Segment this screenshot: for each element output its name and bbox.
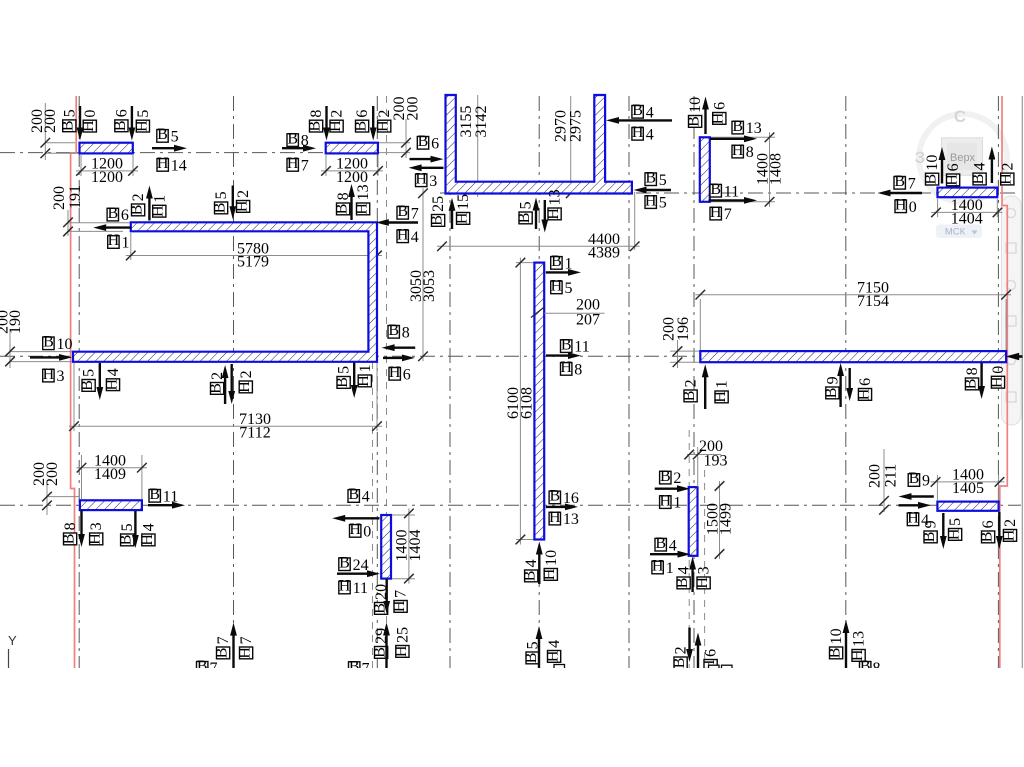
svg-text:11: 11 [353,580,368,597]
marker В6 Н3 arrows at corner wall [409,133,444,190]
svg-text:8: 8 [308,110,325,118]
marker partial box bottom center [554,665,565,676]
svg-text:В: В [307,121,324,132]
viewcube compass ring [919,114,1007,202]
svg-text:Н: Н [988,376,1005,388]
svg-text:6: 6 [857,378,874,386]
svg-text:В: В [157,126,168,143]
svg-text:0: 0 [82,110,99,118]
marker В4 Н2 over wall W6 right [970,147,1016,185]
svg-text:1: 1 [151,195,168,203]
svg-text:6: 6 [703,649,720,657]
svg-text:Н: Н [549,509,561,526]
svg-text:1: 1 [673,495,681,512]
svg-text:Н: Н [87,533,104,545]
svg-text:В: В [287,130,298,147]
marker В4 Н10 under center wall [522,542,560,585]
marker В8 Н13 up arrow under wall W2 [334,184,373,220]
svg-text:С: С [954,107,966,126]
svg-text:1405: 1405 [952,480,984,497]
svg-text:24: 24 [353,557,369,574]
svg-text:Н: Н [80,120,97,132]
svg-text:7154: 7154 [857,293,889,310]
marker В2 Н1 right arrow at right wall top [655,468,690,512]
svg-text:В: В [348,486,359,503]
svg-text:3053: 3053 [421,270,438,302]
svg-text:4: 4 [669,537,677,554]
marker В8 Н0 under long wall right [962,363,1007,399]
marker В5 Н13 arrows at tee wall bottom [516,189,564,232]
svg-text:МСК: МСК [945,227,966,238]
svg-text:1200: 1200 [336,169,368,186]
svg-text:Н: Н [393,645,410,657]
svg-text:3: 3 [88,522,105,530]
svg-text:7: 7 [908,175,916,192]
svg-text:5: 5 [565,280,573,297]
svg-text:5: 5 [336,366,353,374]
marker В4 Н3 up arrow under right wall [674,557,713,593]
svg-text:Н: Н [710,112,727,124]
svg-text:6108: 6108 [519,387,536,419]
dimension 5780 5179 [126,233,382,271]
svg-text:В: В [732,118,743,135]
svg-text:6: 6 [711,102,728,110]
right navigation bar panel [1002,196,1022,425]
marker В10 Н6 over wall W5 [686,97,729,135]
wall W14 bottom right 1400 [937,502,998,511]
svg-text:7: 7 [215,636,232,644]
svg-text:4: 4 [546,640,563,648]
svg-text:2: 2 [673,470,681,487]
svg-text:5179: 5179 [237,254,269,271]
dimension 1200 1200 under wall W1 [76,155,138,186]
dimension 200 200 wall W1 left [29,103,78,160]
svg-text:13: 13 [851,631,868,647]
svg-text:9: 9 [923,520,940,528]
svg-text:Н: Н [237,647,254,659]
svg-text:1499: 1499 [718,503,735,535]
dimension 7130 7112 [69,363,382,441]
marker В11 right arrow at bottom left wall [148,486,185,509]
marker В6 Н2 over wall W2 right [353,106,394,141]
svg-text:1: 1 [666,560,674,577]
svg-text:В: В [962,379,979,390]
svg-text:5: 5 [947,518,964,526]
marker В7 Н4 left arrow at room corner [376,203,419,246]
svg-text:Н: Н [150,205,167,217]
svg-text:Н: Н [545,208,562,220]
svg-text:2975: 2975 [568,110,585,142]
svg-text:Н: Н [327,120,344,132]
dimension 7150 7154 [695,280,1011,352]
marker В2 Н1 under long wall left [681,364,731,409]
marker В9 Н6 under long wall mid [823,363,874,407]
svg-text:В: В [655,535,666,552]
svg-text:5: 5 [659,195,667,212]
axis vertical 3 [376,96,378,668]
svg-text:1200: 1200 [91,169,123,186]
svg-text:В: В [681,391,698,402]
svg-text:7: 7 [411,205,419,222]
svg-text:3: 3 [57,368,65,385]
svg-text:В: В [353,121,370,132]
svg-text:200: 200 [404,97,421,121]
dimension 3050 3053 vertical [408,188,438,361]
svg-text:В: В [334,204,351,215]
svg-text:Н: Н [108,232,120,249]
svg-text:Н: Н [415,171,427,188]
dimension 1200 1200 under wall W2 [321,155,383,186]
marker В9 Н5 under bottom right wall [921,513,964,549]
marker partial В8 bottom right edge [860,658,881,677]
svg-text:4: 4 [646,126,654,143]
svg-text:2: 2 [235,190,252,198]
svg-text:Н: Н [632,124,644,141]
marker В5 Н1 under room bottom wall right [334,363,374,398]
svg-text:1: 1 [357,364,374,372]
svg-text:4: 4 [411,229,419,246]
svg-text:Н: Н [103,378,120,390]
svg-text:В: В [112,120,129,131]
svg-text:10: 10 [924,155,941,171]
marker В25 Н15 up arrows at corner wall bottom [429,194,473,229]
svg-text:4: 4 [105,368,122,376]
svg-text:В: В [388,322,399,339]
marker В10 Н6 over wall W6 left [923,147,963,186]
svg-text:5: 5 [61,109,78,117]
wall W5 small vertical top right [700,137,710,202]
axis vertical 7 [693,96,695,668]
svg-text:В: В [129,205,146,216]
svg-text:2: 2 [329,110,346,118]
marker В2 Н1 over room top wall left [129,186,169,221]
axis horizontal A [0,152,378,154]
svg-text:В: В [921,532,938,543]
svg-text:Н: Н [732,142,744,159]
svg-text:0: 0 [909,199,917,216]
marker В16 Н13 right arrow at center wall bottom [546,488,579,529]
svg-text:8: 8 [964,367,981,375]
svg-text:Н: Н [349,521,361,538]
marker В10 Н13 up arrow bottom right [827,620,868,668]
marker В5 Н2 over room top wall mid [212,186,253,220]
svg-text:2: 2 [1002,519,1019,527]
svg-text:В: В [212,203,229,214]
svg-text:6: 6 [113,109,130,117]
svg-text:3142: 3142 [473,106,490,138]
svg-text:Н: Н [694,577,711,589]
marker В6 Н1 left arrow at room wall [93,205,131,252]
svg-text:10: 10 [57,336,73,353]
svg-text:8: 8 [402,324,410,341]
svg-text:Н: Н [397,227,409,244]
dimension 6100 6108 vertical [505,258,535,545]
svg-text:1: 1 [714,380,731,388]
svg-text:В: В [686,116,703,127]
svg-text:В: В [710,181,721,198]
marker В8 Н3 under bottom left wall [61,511,106,548]
svg-text:Верх: Верх [950,152,975,164]
svg-text:7: 7 [238,636,255,644]
svg-text:7: 7 [724,206,732,223]
svg-text:В: В [429,215,446,226]
svg-text:Н: Н [236,381,253,393]
svg-text:6: 6 [354,110,371,118]
svg-text:В: В [214,648,231,659]
wall W15 long right [700,351,1006,362]
marker В7 Н0 left arrow [878,173,923,216]
svg-text:5: 5 [81,369,98,377]
svg-text:В: В [60,120,77,131]
svg-text:Н: Н [998,173,1015,185]
marker В29 Н25 up arrow bottom [372,623,412,669]
marker В4 Н1 right arrow at right wall bottom [650,535,691,577]
svg-text:3: 3 [696,566,713,574]
svg-text:В: В [660,468,671,485]
svg-text:Н: Н [551,278,563,295]
marker В20 Н7 down arrow under mid wall [372,579,410,614]
svg-text:6: 6 [431,135,439,152]
svg-text:В: В [979,532,996,543]
axis horizontal C [0,355,1016,357]
svg-text:Н: Н [944,174,961,186]
svg-text:В: В [523,653,540,664]
svg-text:2: 2 [999,163,1016,171]
svg-text:200: 200 [42,109,59,133]
svg-text:7: 7 [393,590,410,598]
svg-text:В: В [674,578,691,589]
svg-text:13: 13 [547,189,564,205]
svg-text:1408: 1408 [768,153,785,185]
svg-text:196: 196 [675,317,692,341]
svg-text:9: 9 [824,376,841,384]
svg-text:В: В [334,377,351,388]
wall W3 corner L-shape [446,95,632,194]
viewcube square Верх [942,138,983,176]
svg-text:В: В [671,658,688,669]
marker В11 Н7 right arrow [709,181,758,223]
marker В5 Н0 over wall W1 left [60,106,99,141]
svg-text:6: 6 [945,163,962,171]
marker В8 Н2 over wall W2 left [307,106,346,141]
svg-text:В: В [923,174,940,185]
svg-text:В: В [339,554,350,571]
svg-text:11: 11 [574,339,589,356]
dimension 200 196 right wall left end [661,317,700,368]
dimension 200 190 room bottom wall left [0,310,73,368]
svg-text:В: В [522,571,539,582]
wall W13 bottom left 1400 [80,500,142,510]
svg-text:Н: Н [660,492,672,509]
svg-text:В: В [418,133,429,150]
svg-text:11: 11 [724,183,739,200]
axis vertical 5 [538,96,540,668]
marker В2 Н2 under room bottom wall mid [208,364,255,404]
svg-text:Н: Н [946,528,963,540]
dimension 200 193 small right [684,438,727,487]
svg-text:В: В [549,488,560,505]
marker В6 Н2 under bottom right wall right [979,512,1020,549]
svg-text:Н: Н [355,375,372,387]
svg-text:5: 5 [659,172,667,189]
svg-text:8: 8 [746,144,754,161]
axis vertical 4 [449,96,451,668]
marker partial В7 bottom left edge [197,658,218,677]
svg-text:1: 1 [122,235,130,252]
svg-text:3: 3 [429,173,437,190]
marker В10 Н3 left of room bottom wall [30,334,73,386]
svg-text:6: 6 [980,520,997,528]
svg-text:Н: Н [895,197,907,214]
svg-text:В: В [397,203,408,220]
svg-text:5: 5 [135,110,152,118]
svg-text:0: 0 [990,366,1007,374]
axis vertical 2 [233,96,235,668]
svg-text:191: 191 [67,185,84,209]
marker В5 Н5 left arrow [634,169,672,211]
svg-text:В: В [208,383,225,394]
svg-text:0: 0 [363,524,371,541]
svg-text:2: 2 [376,110,393,118]
axis horizontal B [440,192,1016,194]
marker В9 Н4 arrows at bottom right wall [899,470,934,529]
dimension 2970 2975 label [553,96,585,198]
svg-text:10: 10 [828,628,845,644]
svg-text:Н: Н [541,568,558,580]
svg-text:Н: Н [652,558,664,575]
svg-text:5: 5 [171,129,179,146]
svg-text:В: В [61,534,78,545]
dimension 200 200 wall W2 right [378,97,421,159]
dimension 200 211 bottom right [867,449,900,515]
axis vertical 1 [78,96,80,668]
svg-text:Н: Н [287,155,299,172]
svg-text:Н: Н [855,388,872,400]
svg-text:Н: Н [391,600,408,612]
marker partial В7 bottom center edge [349,658,370,677]
svg-text:6: 6 [403,366,411,383]
svg-text:Н: Н [133,120,150,132]
svg-text:14: 14 [171,158,187,175]
wall W6 horizontal 1400 top right [938,188,998,198]
svg-text:1409: 1409 [94,466,126,483]
marker В13 Н8 right arrow [710,118,762,161]
svg-text:В: В [645,169,656,186]
hidden line near axis 3 bottom [372,362,374,668]
red reference line left [71,96,77,668]
marker В5 Н14 with right arrow [152,126,187,174]
svg-text:Н: Н [139,534,156,546]
svg-text:207: 207 [576,311,600,328]
svg-text:13: 13 [746,120,762,137]
svg-text:8: 8 [574,362,582,379]
dimension 1400 1404 top right wall [931,197,1003,227]
МСК coordinate system chip [936,225,982,239]
svg-text:Н: Н [560,359,572,376]
dimension 1400 1409 bottom left wall [77,453,147,500]
wall W2 top 1200 [326,143,378,154]
marker В11 Н8 right arrow at center wall [546,336,590,378]
marker В2 Н6 arrows bottom [671,628,720,672]
svg-text:В: В [823,388,840,399]
marker В7 Н7 up arrow bottom left [214,623,256,668]
svg-text:193: 193 [704,453,728,470]
svg-text:13: 13 [355,184,372,200]
svg-text:15: 15 [455,194,472,210]
svg-text:7: 7 [301,158,309,175]
svg-text:7112: 7112 [239,424,270,441]
wall W12 right vertical 1500 [689,487,698,556]
svg-text:В: В [118,535,135,546]
marker В6 Н5 over wall W1 right [112,106,152,141]
svg-text:Н: Н [1000,529,1017,541]
svg-text:4: 4 [140,523,157,531]
svg-text:Н: Н [354,203,371,215]
wall W1 top left 1200 [80,143,133,154]
dimension 1500 1499 vertical [704,481,734,559]
svg-text:В: В [970,174,987,185]
dimension 3155 3142 label [458,95,490,197]
svg-text:2: 2 [683,379,700,387]
svg-text:2: 2 [238,370,255,378]
svg-text:200: 200 [867,464,884,488]
marker В8 Н7 with right arrow [282,130,316,174]
svg-text:25: 25 [430,196,447,212]
svg-text:Н: Н [339,578,351,595]
svg-text:В: В [894,173,905,190]
axis vertical 6 [628,96,630,668]
svg-text:10: 10 [543,550,560,566]
dimension 200 200 bottom left wall [31,462,80,515]
svg-text:13: 13 [563,511,579,528]
svg-text:190: 190 [7,310,24,334]
svg-text:4: 4 [523,559,540,567]
marker В24 Н11 right arrow at mid wall [337,554,380,597]
svg-text:200: 200 [51,186,68,210]
marker В1 Н5 right arrow at center wall top [546,253,581,297]
viewcube letter С north [954,107,966,126]
svg-text:В: В [909,470,920,487]
svg-text:В: В [632,102,643,119]
svg-text:Н: Н [545,650,562,662]
svg-text:4: 4 [646,104,654,121]
dimension 200 191 room top wall left [51,185,131,236]
marker В5 Н4 bottom center [523,626,563,668]
svg-text:В: В [149,486,160,503]
wall W4 tee vertical [594,95,605,183]
wall W10 center vertical 6100 [534,263,544,540]
marker partial boxes bottom right of axis 7 [709,665,733,676]
marker Н6 right arrow at room bottom corner [383,355,415,384]
red reference line right [1000,96,1008,668]
dimension 1400 1404 vertical mid [391,508,424,583]
dimension 1400 1408 vertical top [710,132,785,207]
svg-text:Y: Y [8,633,17,648]
svg-text:Н: Н [234,200,251,212]
viewcube letter З west [915,148,926,167]
marker В8 left arrow at room bottom corner [382,322,416,351]
svg-text:Н: Н [712,391,729,403]
svg-text:Н: Н [645,192,657,209]
svg-text:В: В [107,205,118,222]
svg-text:Н: Н [375,120,392,132]
svg-text:211: 211 [883,464,900,487]
svg-text:200: 200 [44,462,61,486]
drawing frame right gray line [1021,96,1023,668]
hidden line right of wall W12 [704,470,706,668]
svg-text:В: В [551,253,562,270]
svg-text:Н: Н [907,510,919,527]
